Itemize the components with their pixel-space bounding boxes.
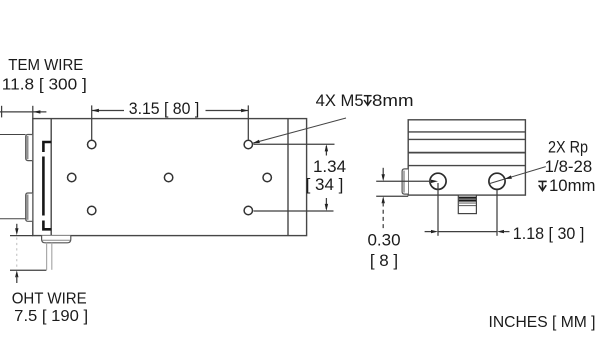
callout text 2X Rp xyxy=(545,137,596,195)
depth symbol large xyxy=(538,181,546,190)
svg-text:7.5 [ 190 ]: 7.5 [ 190 ] xyxy=(14,308,88,325)
svg-text:2X Rp: 2X Rp xyxy=(548,137,588,156)
svg-text:3.15 [ 80 ]: 3.15 [ 80 ] xyxy=(129,99,200,118)
hole bottom-right xyxy=(244,206,252,214)
hole mid-right xyxy=(263,173,271,181)
bottom stud xyxy=(458,195,476,214)
callout text 4X M5 depth 8mm xyxy=(316,91,414,110)
svg-text:8mm: 8mm xyxy=(372,91,414,110)
svg-text:TEM WIRE: TEM WIRE xyxy=(8,57,83,74)
side view body outline xyxy=(33,119,307,236)
port hole right xyxy=(489,173,505,189)
callout leader 4X M5 xyxy=(253,118,346,143)
svg-text:11.8 [ 300 ]: 11.8 [ 300 ] xyxy=(2,77,87,94)
extension line tab2 xyxy=(0,218,26,220)
svg-text:0.30: 0.30 xyxy=(367,231,400,250)
side view right cap line xyxy=(287,119,289,236)
svg-text:1.34: 1.34 xyxy=(313,157,346,176)
label TEM WIRE xyxy=(2,57,87,94)
svg-text:[ 34 ]: [ 34 ] xyxy=(306,175,344,194)
wire lines xyxy=(47,243,52,270)
left bumper tab 2 xyxy=(26,193,33,221)
hole bottom-left xyxy=(88,206,96,214)
hole top-left xyxy=(88,140,96,148)
svg-text:OHT WIRE: OHT WIRE xyxy=(12,291,87,308)
dimension TEM wire xyxy=(0,106,46,119)
side view left cap line xyxy=(50,119,52,236)
port hole left xyxy=(430,173,446,189)
dimension 1.34 [ 34 ] xyxy=(254,144,335,211)
extension line tab1 xyxy=(0,134,26,136)
callout leader 2X Rp xyxy=(489,167,545,184)
depth symbol small xyxy=(364,96,372,106)
hole mid-left xyxy=(68,173,76,181)
hole mid-center xyxy=(164,173,172,181)
bottom foot clip xyxy=(42,236,71,243)
left bumper tab 1 xyxy=(26,135,33,161)
dimension 1.18 [ 30 ] xyxy=(425,183,510,236)
svg-text:1/8-28: 1/8-28 xyxy=(545,157,593,176)
end view side tab xyxy=(402,169,408,194)
svg-text:4X M5: 4X M5 xyxy=(316,91,364,110)
end view body xyxy=(408,120,525,195)
svg-text:INCHES [ MM ]: INCHES [ MM ] xyxy=(489,314,596,331)
label OHT WIRE xyxy=(12,291,89,325)
svg-text:10mm: 10mm xyxy=(549,176,596,195)
dimension 3.15 [ 80 ] xyxy=(92,105,249,140)
piston seal thick bracket xyxy=(43,142,51,229)
svg-text:1.18 [ 30 ]: 1.18 [ 30 ] xyxy=(513,224,585,243)
svg-text:[ 8 ]: [ 8 ] xyxy=(370,251,398,270)
dimension 0.30 [ 8 ] xyxy=(376,168,438,230)
hole top-right xyxy=(244,140,252,148)
dimension OHT wire xyxy=(10,224,46,283)
